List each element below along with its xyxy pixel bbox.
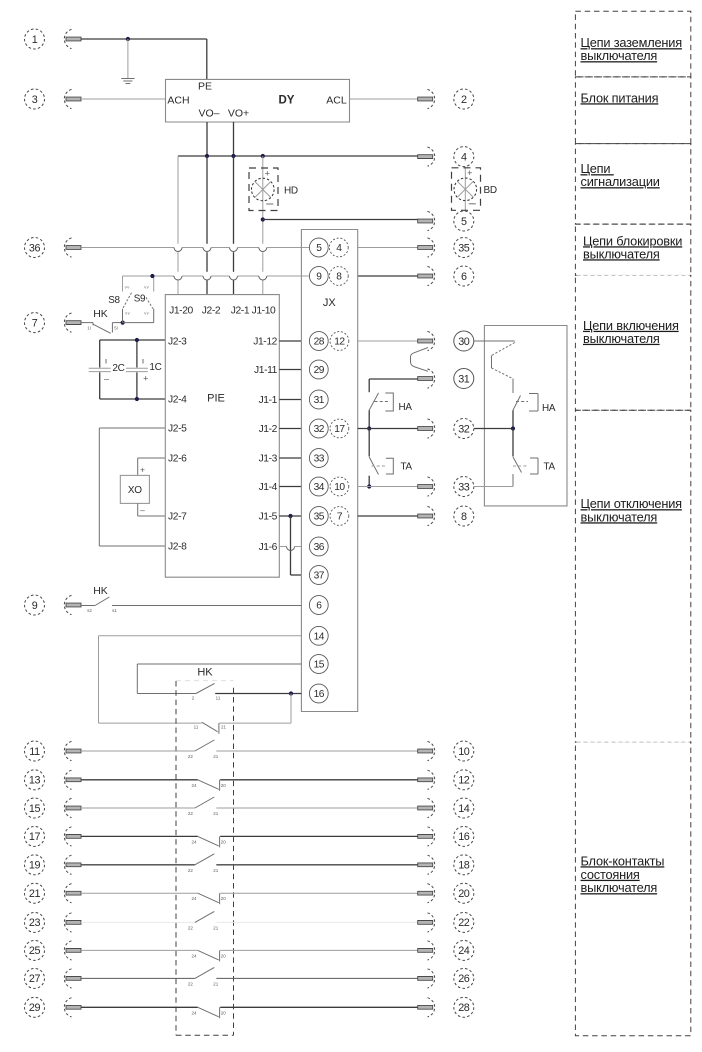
svg-text:HK: HK	[93, 585, 108, 597]
wire JX14 loop	[99, 636, 302, 723]
svg-text:17: 17	[29, 831, 41, 843]
svg-text:J1-1: J1-1	[259, 395, 278, 406]
module PIE	[165, 295, 279, 578]
wire JX15 loop	[137, 664, 301, 694]
wire terminal31 to HA contact	[369, 379, 418, 392]
svg-text:35: 35	[314, 512, 325, 523]
node HD lamp bottom junction	[261, 217, 265, 221]
svg-text:˅˅: ˅˅	[144, 285, 149, 290]
wire row 13-12 right	[220, 779, 418, 781]
wire ACL to terminal 2	[350, 98, 418, 100]
terminal 10 (right)	[418, 741, 474, 761]
node VO+ junction	[231, 154, 235, 158]
svg-text:21: 21	[213, 811, 219, 816]
svg-text:HD: HD	[284, 186, 298, 197]
wire S8S9 to JX pin 9	[154, 275, 174, 277]
svg-text:J2-7: J2-7	[168, 512, 187, 523]
svg-text:HK: HK	[93, 308, 108, 320]
ground	[121, 39, 134, 84]
terminal 14 (right)	[418, 798, 474, 818]
svg-text:выключателя: выключателя	[581, 48, 658, 63]
svg-text:10: 10	[334, 482, 345, 493]
wire J1-5 branch to JX37	[291, 516, 302, 575]
wire terminal3 to ACH	[81, 98, 166, 100]
contact HK 19-18 (NO)	[195, 854, 214, 865]
terminal 28 (right)	[418, 997, 474, 1017]
svg-text:12: 12	[458, 775, 470, 787]
svg-text:22: 22	[188, 754, 194, 759]
svg-text:30: 30	[458, 336, 470, 348]
contact HA (right)	[513, 379, 538, 429]
wire J1-2 to JX32	[279, 428, 301, 430]
JX pin 9	[309, 267, 328, 286]
JX pin 32	[309, 419, 328, 438]
JX pin 33	[309, 449, 328, 468]
wire PE drop to DY	[206, 39, 208, 79]
terminal 16 (right)	[418, 826, 474, 846]
terminal 15 (left)	[25, 798, 82, 818]
connector JX	[301, 230, 357, 712]
wire row 25-24 left	[81, 949, 198, 951]
wire row 27-26 right	[216, 977, 417, 979]
svg-text:˅˅: ˅˅	[125, 285, 130, 290]
wire JX12 to terminal 30	[358, 340, 418, 342]
svg-text:J1-6: J1-6	[259, 542, 278, 553]
svg-text:5: 5	[461, 216, 467, 228]
svg-text:+: +	[467, 168, 472, 178]
svg-text:14: 14	[458, 803, 470, 815]
svg-text:25: 25	[29, 945, 41, 957]
svg-text:+: +	[140, 465, 145, 475]
svg-text:J1-10: J1-10	[252, 306, 276, 317]
terminal 9 (left)	[25, 595, 82, 615]
wire JX7 to terminal 8	[358, 515, 418, 517]
node HK output	[121, 321, 125, 325]
terminal 12 (right)	[418, 770, 474, 790]
svg-text:J2-8: J2-8	[168, 542, 187, 553]
wire row 21-20 left	[81, 892, 198, 894]
svg-text:PE: PE	[198, 81, 212, 93]
wire terminal1 to PE corner	[81, 38, 207, 40]
svg-text:20: 20	[458, 888, 470, 900]
svg-text:+: +	[143, 374, 148, 384]
svg-text:4: 4	[336, 243, 342, 254]
svg-text:J2-6: J2-6	[168, 454, 187, 465]
svg-text:21: 21	[213, 925, 219, 930]
JX pin 17	[330, 419, 349, 438]
contact HK 27-26 (NO)	[195, 967, 214, 978]
svg-text:36: 36	[314, 542, 325, 553]
wire terminal 36 to JX pin 5	[81, 247, 174, 249]
terminal 21 (left)	[25, 883, 82, 903]
svg-text:8: 8	[336, 272, 342, 283]
JX pin 29	[309, 360, 328, 379]
wire J1-11 to JX29	[279, 369, 301, 371]
svg-text:21: 21	[213, 981, 219, 986]
wire row 23-22 right	[216, 921, 417, 923]
switch HK (lower at term 9)	[81, 597, 301, 606]
label column dashed boxes	[575, 11, 690, 1035]
svg-text:20: 20	[221, 783, 227, 788]
svg-text:5: 5	[316, 243, 322, 254]
contact TA (right)	[513, 429, 538, 487]
contact HK 23-22 (NO)	[195, 911, 214, 922]
JX pin 16	[309, 684, 328, 703]
svg-text:1C: 1C	[149, 362, 161, 373]
wire S8 S9 common bottom	[123, 322, 154, 324]
JX pin 28	[309, 332, 328, 351]
wire row 11-10 left	[81, 750, 195, 752]
svg-text:24: 24	[191, 896, 197, 901]
JX pin 31	[309, 390, 328, 409]
svg-text:TA: TA	[401, 462, 413, 473]
svg-text:31: 31	[458, 373, 470, 385]
terminal 3 (left)	[25, 89, 82, 109]
HK auxiliary switch dashed box	[176, 681, 234, 1036]
contact HK 13-12 (NC)	[198, 780, 220, 791]
svg-text:HA: HA	[399, 402, 413, 413]
wire row 19-18 right	[216, 864, 417, 866]
wire row 15-14 left	[81, 807, 195, 809]
wire VO+ down	[233, 122, 235, 156]
svg-text:7: 7	[32, 317, 38, 329]
svg-text:J2-2: J2-2	[202, 306, 221, 317]
switch HK (upper)	[81, 323, 123, 334]
svg-text:27: 27	[29, 973, 41, 985]
terminal 13 (left)	[25, 770, 82, 790]
terminal 2 (right)	[418, 89, 474, 109]
JX pin 5	[309, 238, 328, 257]
node HA TA junction	[367, 426, 371, 430]
wire row 25-24 right	[220, 949, 418, 951]
JX pin 37	[309, 566, 328, 585]
svg-text:15: 15	[314, 660, 325, 671]
svg-text:J1-3: J1-3	[259, 454, 278, 465]
wire HD to terminal 5	[263, 219, 418, 221]
svg-text:22: 22	[188, 811, 194, 816]
wire JX17 to terminal 32	[358, 428, 418, 430]
node ground junction	[126, 37, 130, 41]
svg-text:S9: S9	[134, 294, 146, 305]
svg-text:23: 23	[29, 917, 41, 929]
contact HA (left)	[369, 393, 393, 429]
svg-text:s2: s2	[87, 608, 92, 613]
JX pin 36	[309, 537, 328, 556]
wire JX10 to terminal 33	[358, 486, 418, 488]
JX pin 8	[329, 267, 348, 286]
svg-text:J2-1: J2-1	[231, 306, 250, 317]
link terminal30 to terminal31	[411, 348, 429, 372]
svg-text:3: 3	[32, 94, 38, 106]
terminal 25 (left)	[25, 940, 82, 960]
capacitor 2C	[89, 359, 111, 384]
terminal 6 (right)	[418, 266, 474, 286]
node VO- junction	[205, 154, 209, 158]
wire J2-5	[99, 427, 165, 429]
lamp BD	[452, 167, 481, 211]
svg-text:+: +	[265, 168, 270, 178]
svg-text:выключателя: выключателя	[581, 880, 658, 895]
wire VO- down	[206, 122, 208, 156]
contact HK 11-10 (NO)	[195, 740, 214, 751]
svg-text:32: 32	[458, 423, 470, 435]
node label: Цепи включения выключателя	[583, 318, 679, 346]
node HD lamp top junction	[261, 154, 265, 158]
terminal 20 (right)	[418, 883, 474, 903]
node S8S9 top junction	[150, 274, 154, 278]
svg-text:33: 33	[458, 481, 470, 493]
svg-text:J1-4: J1-4	[259, 482, 278, 493]
node label: Блок-контакты состояния выключателя	[581, 853, 665, 895]
svg-text:HK: HK	[197, 667, 213, 679]
wire J2-6	[138, 458, 166, 475]
svg-text:Блок питания: Блок питания	[581, 90, 659, 105]
JX pin 10	[330, 477, 349, 496]
svg-text:5і: 5і	[114, 326, 118, 331]
svg-text:11: 11	[29, 746, 40, 758]
svg-text:32: 32	[314, 424, 325, 435]
svg-text:J2-3: J2-3	[168, 337, 187, 348]
svg-text:9: 9	[316, 272, 322, 283]
svg-text:˅˅: ˅˅	[144, 311, 149, 316]
wire row 27-26 left	[81, 977, 195, 979]
svg-text:33: 33	[314, 454, 325, 465]
svg-text:14: 14	[314, 631, 325, 642]
wire J2-5 to J2-8 left branch	[98, 428, 100, 546]
JX pin 14	[309, 626, 328, 645]
svg-text:10: 10	[458, 746, 470, 758]
svg-text:18: 18	[458, 860, 470, 872]
terminal 33 (right)	[418, 477, 474, 497]
terminal 32 (right)	[418, 419, 474, 439]
svg-text:24: 24	[191, 783, 197, 788]
svg-text:8: 8	[461, 511, 467, 523]
svg-text:11: 11	[194, 725, 199, 730]
wire row 17-16 left	[81, 835, 198, 837]
svg-text:TA: TA	[544, 462, 556, 473]
node cap bottom junction	[135, 397, 139, 401]
wire J2-1 riser	[233, 156, 235, 295]
svg-text:28: 28	[314, 337, 325, 348]
wire capacitor left branch	[99, 340, 101, 399]
svg-text:J2-4: J2-4	[168, 395, 187, 406]
terminal 26 (right)	[418, 968, 474, 988]
terminal 5 (right)	[418, 211, 474, 231]
terminal 36 (left)	[25, 238, 82, 258]
svg-text:J1-11: J1-11	[254, 365, 278, 376]
svg-text:JX: JX	[323, 297, 337, 309]
contact TA (left)	[369, 429, 393, 487]
wire J2-8	[99, 545, 165, 547]
terminal 18 (right)	[418, 855, 474, 875]
svg-text:36: 36	[29, 242, 41, 254]
svg-text:s1: s1	[112, 608, 117, 613]
terminal 27 (left)	[25, 968, 82, 988]
breaker mechanism box	[484, 326, 567, 506]
svg-text:PIE: PIE	[207, 393, 225, 405]
node cap top junction	[135, 338, 139, 342]
svg-text:11: 11	[216, 696, 221, 701]
counter XO	[120, 475, 149, 503]
node J1-5 branch	[288, 514, 292, 518]
wire J1-4 to JX34	[279, 486, 301, 488]
wire terminal30 into box	[474, 340, 515, 342]
svg-text:4: 4	[461, 151, 467, 163]
svg-text:35: 35	[458, 242, 470, 254]
wire J1-12 to JX28	[279, 340, 301, 342]
wire terminal33 into box	[474, 486, 513, 488]
terminal 7 (left)	[25, 313, 82, 333]
svg-text:выключателя: выключателя	[581, 509, 658, 524]
contact HK NO (row 16)	[196, 683, 302, 693]
JX pin 4	[329, 238, 348, 257]
svg-text:6: 6	[461, 271, 467, 283]
node right box junction	[511, 426, 515, 430]
switch S9	[123, 276, 154, 323]
linkage zigzag 30	[492, 343, 515, 379]
svg-text:J2-5: J2-5	[168, 424, 187, 435]
svg-text:21: 21	[213, 754, 219, 759]
svg-text:6: 6	[316, 601, 322, 612]
svg-text:17: 17	[334, 424, 345, 435]
terminal 31 (right)	[418, 369, 474, 389]
JX pin 15	[309, 655, 328, 674]
wire J2-3	[100, 339, 166, 341]
svg-text:J1-20: J1-20	[169, 306, 193, 317]
svg-text:–: –	[104, 374, 109, 384]
contact HK 15-14 (NO)	[195, 797, 214, 808]
svg-text:13: 13	[29, 775, 41, 787]
svg-text:22: 22	[188, 925, 194, 930]
svg-text:28: 28	[458, 1002, 470, 1014]
terminal 19 (left)	[25, 855, 82, 875]
svg-text:сигнализации: сигнализации	[581, 174, 660, 189]
svg-text:S8: S8	[108, 295, 120, 306]
svg-text:ACH: ACH	[167, 95, 189, 107]
node HK row16 junction	[289, 691, 293, 695]
contact HK 21-20 (NC)	[198, 893, 220, 904]
svg-text:22: 22	[188, 981, 194, 986]
node label: Цепи сигнализации	[581, 161, 660, 189]
node label: Цепи отключения выключателя	[581, 496, 683, 524]
contact HK 17-16 (NC)	[198, 836, 220, 847]
node label: Цепи заземления выключателя	[581, 35, 683, 63]
svg-text:–: –	[140, 505, 145, 515]
switch S8	[123, 276, 132, 323]
svg-text:9: 9	[32, 600, 38, 612]
svg-text:20: 20	[221, 1010, 227, 1015]
wire J2-7	[138, 503, 166, 516]
svg-text:15: 15	[29, 803, 41, 815]
svg-text:24: 24	[458, 945, 470, 957]
terminal 11 (left)	[25, 741, 82, 761]
wire JX pin8 to terminal 6	[358, 275, 418, 277]
svg-text:J1-5: J1-5	[259, 512, 278, 523]
wire row 21-20 right	[220, 892, 418, 894]
svg-text:20: 20	[221, 896, 227, 901]
svg-text:22: 22	[458, 917, 470, 929]
wire J2-2 riser	[206, 156, 208, 295]
contact HK NC (loop row)	[202, 694, 291, 734]
svg-text:21: 21	[213, 868, 219, 873]
wire row 29-28 left	[81, 1006, 198, 1008]
wire row 15-14 right	[216, 807, 417, 809]
wire J1-10 riser	[262, 156, 264, 295]
wire capacitor middle branch	[136, 340, 138, 399]
svg-text:J1-12: J1-12	[253, 337, 277, 348]
JX pin 7	[330, 507, 349, 526]
svg-text:26: 26	[458, 973, 470, 985]
svg-text:VO+: VO+	[228, 108, 249, 120]
signal bus wire to terminal 4	[178, 155, 418, 157]
terminal 4 (right)	[418, 147, 474, 167]
contact HK 25-24 (NC)	[198, 950, 220, 961]
svg-text:BD: BD	[484, 185, 497, 196]
terminal 22 (right)	[418, 912, 474, 932]
svg-text:2C: 2C	[112, 363, 124, 374]
svg-text:ACL: ACL	[326, 95, 347, 107]
terminal 23 (left)	[25, 912, 82, 932]
svg-text:выключателя: выключателя	[583, 246, 660, 261]
svg-text:24: 24	[191, 1010, 197, 1015]
svg-text:22: 22	[188, 868, 194, 873]
terminal 8 (right)	[418, 506, 474, 526]
svg-text:20: 20	[221, 839, 227, 844]
terminal 30 (right)	[418, 331, 474, 351]
svg-text:2: 2	[461, 94, 467, 106]
svg-text:24: 24	[191, 839, 197, 844]
wire J2-4	[100, 398, 166, 400]
wire J1-3 to JX33	[279, 457, 301, 459]
svg-text:20: 20	[221, 953, 227, 958]
svg-text:˅˅: ˅˅	[125, 311, 130, 316]
svg-text:16: 16	[458, 831, 470, 843]
JX pin 34	[309, 477, 328, 496]
node label: Блок питания	[581, 90, 659, 105]
svg-text:1і: 1і	[87, 326, 91, 331]
svg-text:21: 21	[29, 888, 41, 900]
svg-text:1: 1	[32, 34, 38, 46]
svg-text:HA: HA	[542, 403, 556, 414]
wire row 13-12 left	[81, 779, 198, 781]
power block DY	[166, 79, 350, 122]
terminal 1 (left)	[25, 29, 82, 49]
svg-text:7: 7	[337, 512, 343, 523]
svg-text:12: 12	[334, 337, 345, 348]
wire J1-6 to JX36	[279, 546, 286, 548]
terminal 24 (right)	[418, 940, 474, 960]
wire J1-1 to JX31	[279, 399, 301, 401]
capacitor 1C	[126, 359, 148, 384]
svg-text:21: 21	[221, 725, 227, 730]
wire row 17-16 right	[220, 835, 418, 837]
svg-text:19: 19	[29, 860, 41, 872]
terminal 17 (left)	[25, 826, 82, 846]
svg-text:31: 31	[314, 395, 325, 406]
svg-text:37: 37	[314, 571, 325, 582]
JX pin 12	[330, 332, 349, 351]
svg-text:DY: DY	[279, 95, 295, 107]
contact HK 29-28 (NC)	[198, 1007, 220, 1018]
svg-text:24: 24	[191, 953, 197, 958]
JX pin 35	[309, 507, 328, 526]
wire JX pin4 to terminal 35	[358, 247, 418, 249]
svg-text:XO: XO	[128, 485, 142, 496]
wire J1-5 to JX35	[279, 515, 301, 517]
svg-text:29: 29	[29, 1002, 41, 1014]
svg-text:выключателя: выключателя	[583, 331, 660, 346]
wire row 29-28 right	[220, 1006, 418, 1008]
